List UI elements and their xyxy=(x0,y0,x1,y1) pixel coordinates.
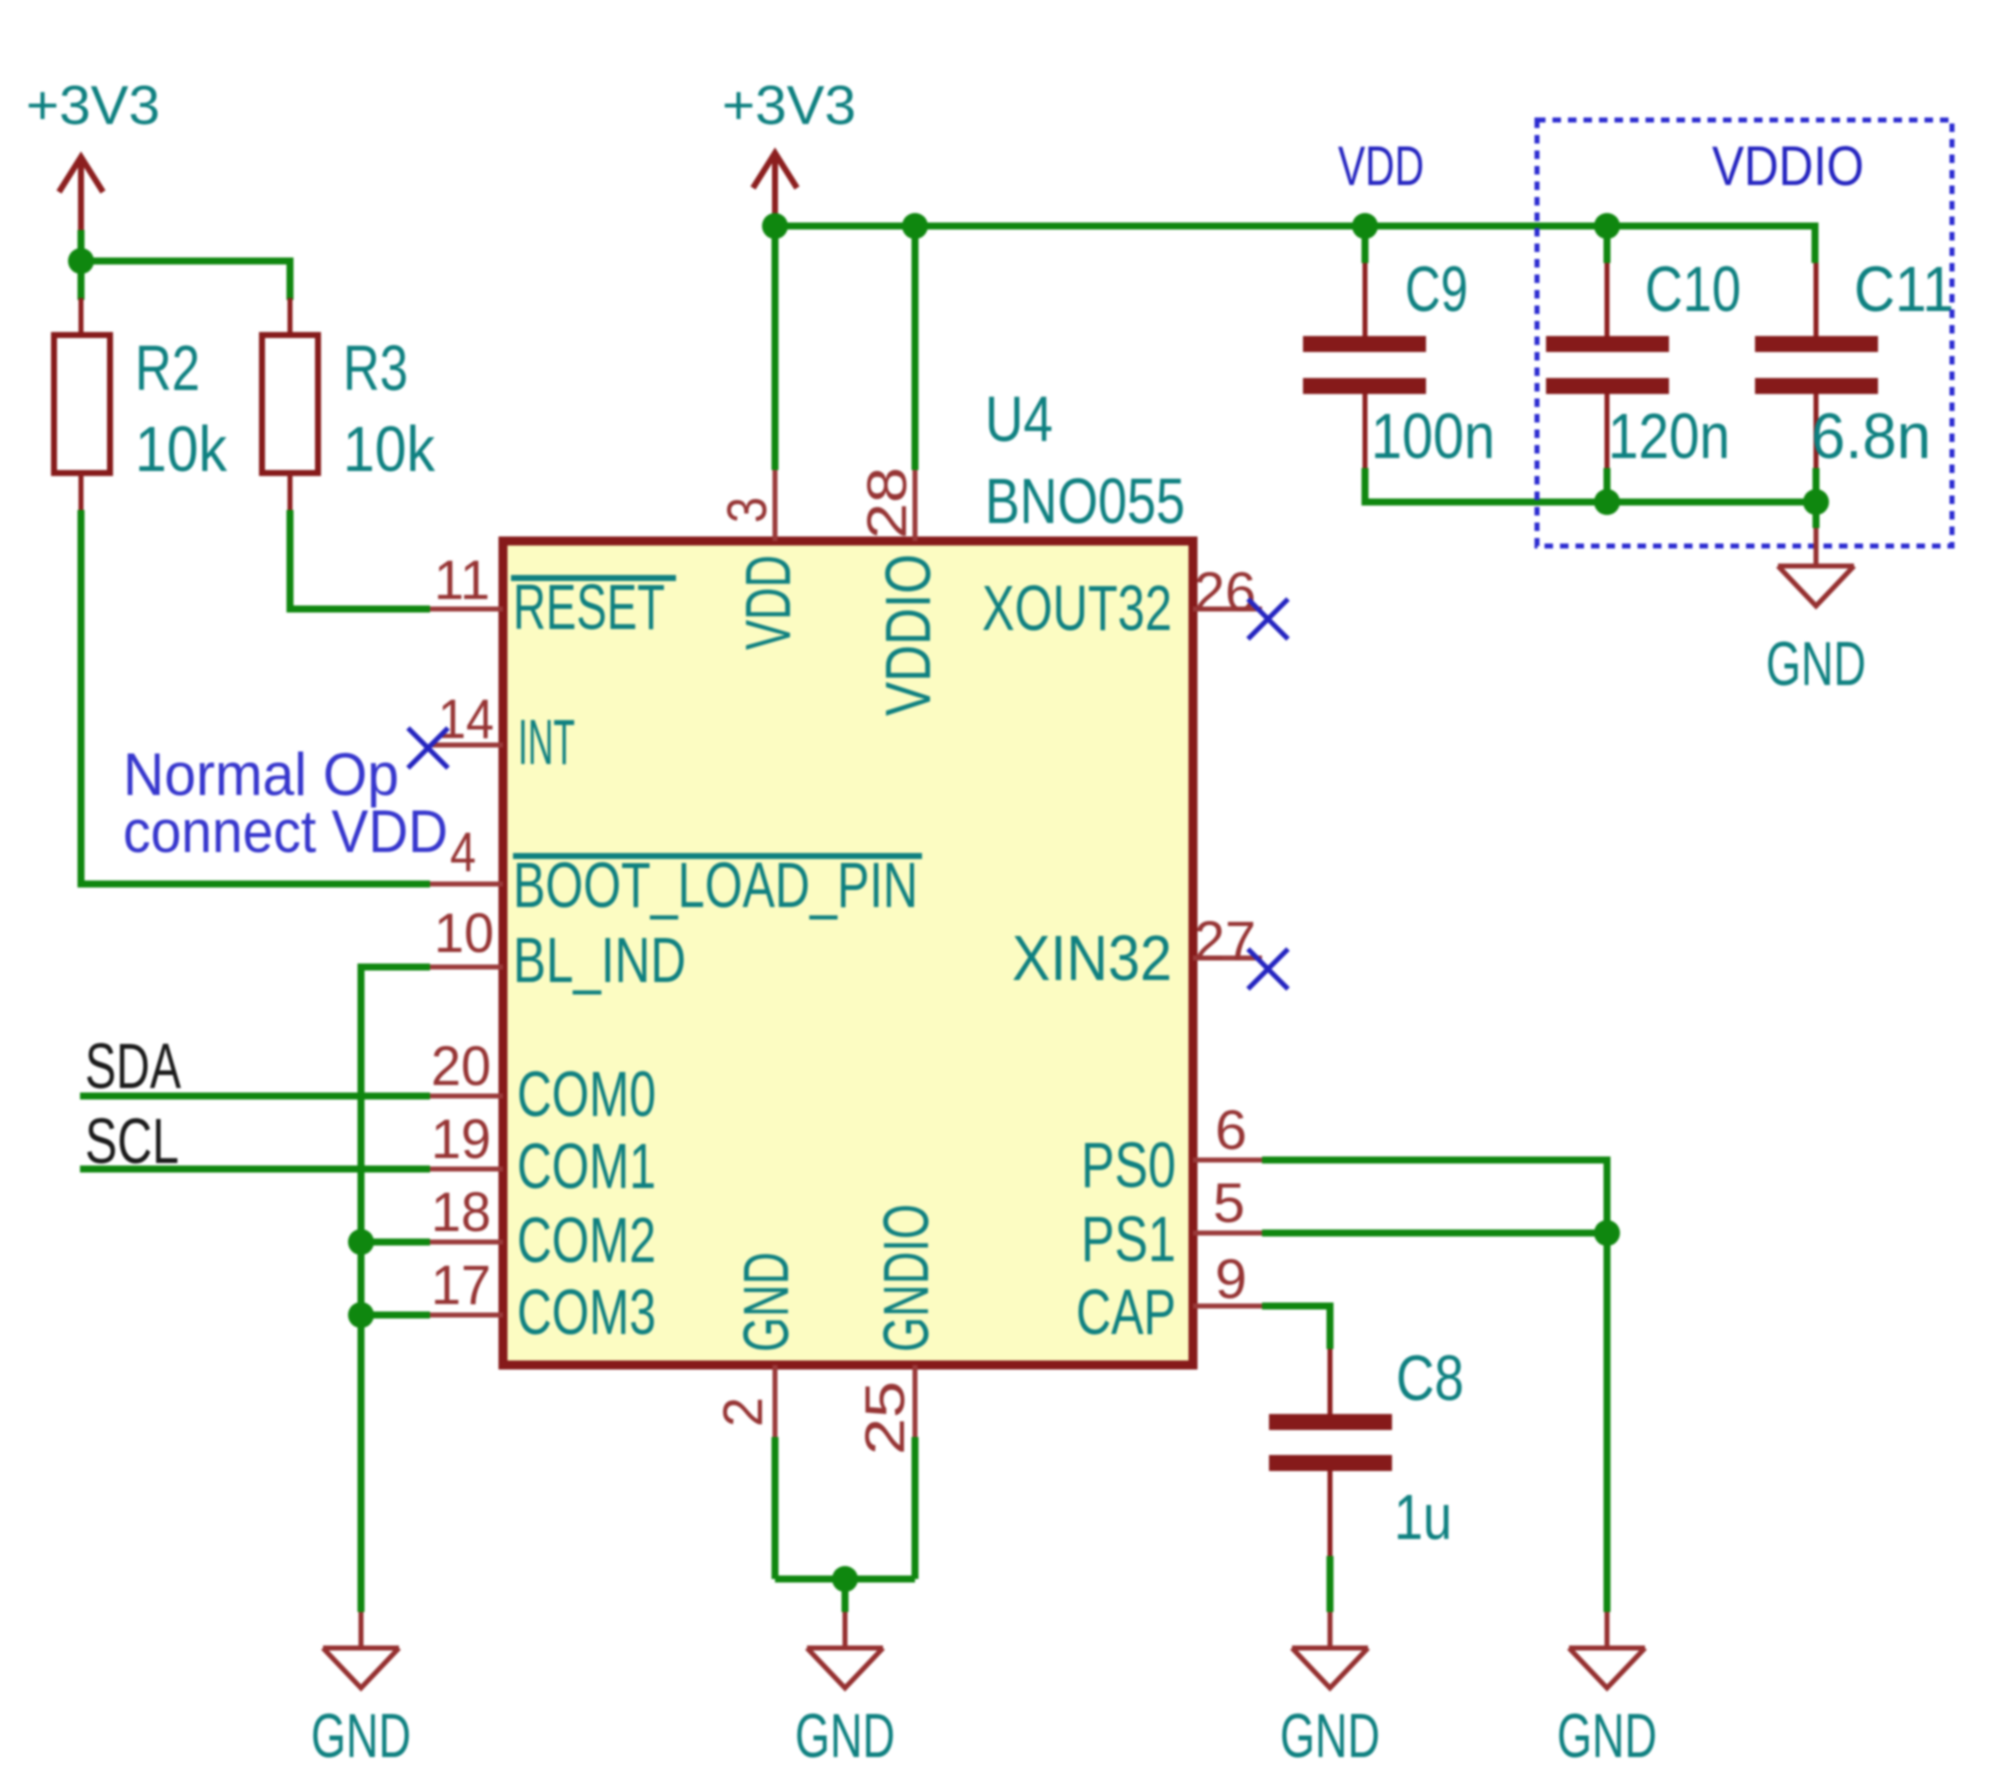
junction at pin 18 branch xyxy=(348,1229,374,1255)
junction GND net xyxy=(832,1566,858,1592)
svg-text:connect VDD: connect VDD xyxy=(123,798,448,865)
pin 9 CAP stub xyxy=(1193,1304,1262,1309)
svg-text:CAP: CAP xyxy=(1076,1276,1176,1348)
svg-text:BOOT_LOAD_PIN: BOOT_LOAD_PIN xyxy=(513,849,918,921)
svg-text:PS1: PS1 xyxy=(1081,1203,1176,1275)
svg-text:10k: 10k xyxy=(135,413,228,485)
wire rail to pin 28 xyxy=(912,226,919,470)
junction PS0/PS1 xyxy=(1594,1220,1620,1246)
pin 26 XOUT32 stub xyxy=(1193,607,1262,612)
junction bottom rail at C10 xyxy=(1594,489,1620,515)
wire C9 bottom rail xyxy=(1365,468,1816,502)
svg-text:COM2: COM2 xyxy=(517,1204,656,1276)
svg-text:XIN32: XIN32 xyxy=(1012,922,1172,994)
svg-text:C11: C11 xyxy=(1854,253,1954,325)
wire rail to pin 3 xyxy=(772,226,779,470)
capacitor C11 xyxy=(1755,253,1954,502)
capacitor C8 xyxy=(1269,1342,1464,1556)
svg-text:20: 20 xyxy=(431,1034,491,1097)
svg-text:11: 11 xyxy=(434,548,490,611)
junction at pin 17 branch xyxy=(348,1302,374,1328)
svg-text:C8: C8 xyxy=(1396,1342,1464,1414)
svg-text:10: 10 xyxy=(434,901,494,964)
svg-text:+3V3: +3V3 xyxy=(722,74,856,136)
svg-text:VDDIO: VDDIO xyxy=(1712,134,1864,197)
no-connect cross pin 26 xyxy=(1248,599,1288,639)
note Normal Op connect VDD xyxy=(123,741,448,865)
svg-text:28: 28 xyxy=(855,467,918,539)
ground symbol below C8 xyxy=(1292,1612,1368,1688)
ground symbol top-right xyxy=(1778,502,1854,606)
svg-text:27: 27 xyxy=(1194,909,1256,972)
svg-text:R3: R3 xyxy=(343,332,408,404)
wire R2 to pin 4 xyxy=(81,510,430,884)
wire pin 5 PS1 xyxy=(1262,1230,1607,1237)
svg-text:RESET: RESET xyxy=(513,571,665,643)
junction rail at C9 xyxy=(1352,213,1378,239)
wire SCL to pin 19 xyxy=(80,1166,430,1173)
svg-text:25: 25 xyxy=(853,1381,916,1455)
capacitor C10 xyxy=(1546,226,1741,502)
wire branch to pin 17 xyxy=(361,1312,430,1319)
pin 28 VDDIO stub xyxy=(913,470,918,541)
svg-text:18: 18 xyxy=(431,1180,491,1243)
wire R3 to pin 11 xyxy=(290,510,430,609)
pin 17 COM3 stub xyxy=(430,1313,503,1318)
svg-text:GND: GND xyxy=(1280,1702,1380,1771)
pin 19 COM1 stub xyxy=(430,1167,503,1172)
svg-text:3: 3 xyxy=(715,497,778,523)
svg-text:BL_IND: BL_IND xyxy=(513,924,686,996)
wire C8 to GND xyxy=(1327,1556,1334,1612)
wire BL_IND down to GND xyxy=(361,967,430,1612)
svg-text:PS0: PS0 xyxy=(1081,1129,1176,1201)
VDDIO dashed group box xyxy=(1537,120,1952,546)
svg-text:1u: 1u xyxy=(1394,1481,1452,1553)
svg-text:VDD: VDD xyxy=(1338,134,1424,197)
ground symbol bottom-middle xyxy=(807,1612,883,1688)
pin name RESET with overline xyxy=(511,571,676,643)
svg-text:6.8n: 6.8n xyxy=(1811,400,1931,472)
svg-text:19: 19 xyxy=(431,1107,491,1170)
svg-text:C10: C10 xyxy=(1645,253,1741,325)
resistor R2 xyxy=(54,298,228,510)
svg-text:5: 5 xyxy=(1213,1171,1245,1234)
pin 25 GNDIO stub xyxy=(913,1365,918,1437)
svg-text:GND: GND xyxy=(1766,630,1866,699)
svg-text:C9: C9 xyxy=(1405,253,1468,325)
svg-text:GNDIO: GNDIO xyxy=(870,1204,942,1352)
svg-text:VDDIO: VDDIO xyxy=(872,554,944,716)
svg-text:4: 4 xyxy=(450,820,476,883)
no-connect cross pin 14 xyxy=(408,728,448,768)
pin name BOOT_LOAD_PIN with overline xyxy=(513,849,922,921)
pin 18 COM2 stub xyxy=(430,1240,503,1245)
ground symbol bottom-right xyxy=(1569,1612,1645,1688)
pin 27 XIN32 stub xyxy=(1193,956,1262,961)
pin 10 BL_IND stub xyxy=(430,965,503,970)
wire joining pins 2 and 25 xyxy=(775,1576,915,1583)
no-connect cross pin 27 xyxy=(1248,949,1288,989)
svg-text:U4: U4 xyxy=(985,383,1053,455)
power symbol +3V3 left xyxy=(59,157,103,230)
svg-text:6: 6 xyxy=(1215,1098,1247,1161)
svg-text:BNO055: BNO055 xyxy=(985,465,1185,537)
IC U4 BNO055 body xyxy=(503,541,1193,1365)
svg-text:R2: R2 xyxy=(135,332,200,404)
wire pin 6 PS0 xyxy=(1262,1160,1607,1233)
junction rail at pin 28 xyxy=(902,213,928,239)
svg-text:26: 26 xyxy=(1194,560,1256,623)
wire pin 9 CAP to C8 xyxy=(1262,1306,1330,1349)
svg-text:COM0: COM0 xyxy=(517,1058,656,1130)
resistor R3 xyxy=(262,298,436,510)
svg-text:100n: 100n xyxy=(1371,400,1495,472)
svg-text:120n: 120n xyxy=(1608,400,1730,472)
svg-text:COM1: COM1 xyxy=(517,1130,656,1202)
svg-text:INT: INT xyxy=(518,706,575,778)
pin 20 COM0 stub xyxy=(430,1094,503,1099)
junction rail at pin 3 xyxy=(762,213,788,239)
wire SDA to pin 20 xyxy=(80,1093,430,1100)
svg-text:GND: GND xyxy=(730,1252,802,1352)
pin 6 PS0 stub xyxy=(1193,1158,1262,1163)
svg-text:SDA: SDA xyxy=(85,1030,181,1102)
power symbol +3V3 middle xyxy=(753,153,797,222)
svg-text:COM3: COM3 xyxy=(517,1276,656,1348)
wire PS net to GND xyxy=(1604,1233,1611,1612)
wire branch to pin 18 xyxy=(361,1239,430,1246)
svg-text:XOUT32: XOUT32 xyxy=(982,572,1172,644)
junction rail at C10 xyxy=(1594,213,1620,239)
svg-text:+3V3: +3V3 xyxy=(26,74,160,136)
svg-text:GND: GND xyxy=(311,1702,411,1771)
svg-text:2: 2 xyxy=(711,1397,774,1427)
svg-text:GND: GND xyxy=(1557,1702,1657,1771)
pin 11 RESET stub xyxy=(430,607,503,612)
junction at +3V3 left xyxy=(68,248,94,274)
wire junction to GND symbol xyxy=(842,1579,849,1612)
pin 14 INT stub xyxy=(430,743,503,748)
svg-text:17: 17 xyxy=(431,1253,491,1316)
svg-text:GND: GND xyxy=(795,1702,895,1771)
wire +3V3 to R2/R3 xyxy=(81,230,290,300)
svg-text:VDD: VDD xyxy=(732,555,804,650)
wire pin 25 GNDIO down xyxy=(912,1437,919,1579)
wire pin 2 GND down xyxy=(772,1437,779,1579)
pin 4 BOOT_LOAD_PIN stub xyxy=(430,882,503,887)
pin 5 PS1 stub xyxy=(1193,1231,1262,1236)
junction bottom rail at C11 xyxy=(1803,489,1829,515)
svg-text:14: 14 xyxy=(438,687,494,750)
wire VDD power rail xyxy=(775,226,1815,263)
ground symbol bottom-left xyxy=(323,1612,399,1688)
svg-text:10k: 10k xyxy=(343,413,436,485)
pin 2 GND stub xyxy=(773,1365,778,1437)
capacitor C9 xyxy=(1303,226,1495,472)
svg-text:9: 9 xyxy=(1215,1247,1247,1310)
pin 3 VDD stub xyxy=(773,470,778,541)
